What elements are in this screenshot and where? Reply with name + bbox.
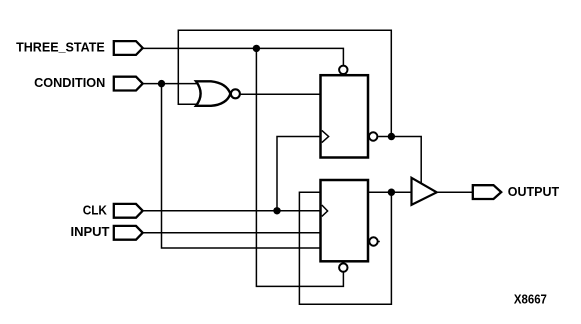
pad CONDITION <box>114 77 143 91</box>
node junction FF1 output <box>388 133 395 140</box>
pad OUTPUT <box>473 185 501 199</box>
wire CLK branch up to FF1 clock <box>277 137 321 211</box>
wire feedback top loop <box>178 30 391 136</box>
wire CONDITION to NOR input <box>142 83 199 85</box>
pad INPUT <box>114 226 143 240</box>
wire NOR output to FF1 D <box>241 93 321 95</box>
svg-text:CONDITION: CONDITION <box>34 75 105 90</box>
svg-text:CLK: CLK <box>83 202 108 217</box>
svg-text:THREE_STATE: THREE_STATE <box>16 39 105 54</box>
svg-text:INPUT: INPUT <box>71 224 110 239</box>
buffer tristate U2 <box>412 178 437 205</box>
flip-flop FF1 preset bubble (top) <box>339 66 347 74</box>
gate NOR U1 output bubble <box>231 89 240 98</box>
wire net TS vertical from junction down <box>256 48 343 286</box>
flip-flop FF2 unused inverted output bubble <box>369 237 377 245</box>
flip-flop FF2 clock wedge <box>322 205 328 216</box>
node junction FF2 output <box>388 189 395 196</box>
flip-flop FF2 body <box>321 180 369 261</box>
node junction CONDITION <box>158 80 165 87</box>
flip-flop FF1 inverted output bubble <box>369 132 377 140</box>
svg-text:X8667: X8667 <box>514 291 547 306</box>
wire FF1 output to buffer enable <box>378 137 421 184</box>
wire FF2 output to buffer <box>368 191 412 193</box>
wire stub at FF2 unused bubble <box>379 241 380 243</box>
wire buffer output <box>437 191 473 193</box>
wire INPUT <box>142 232 320 234</box>
pad THREE_STATE <box>114 41 143 55</box>
node junction THREE_STATE <box>253 45 260 52</box>
wire THREE_STATE horizontal <box>142 48 343 65</box>
svg-text:OUTPUT: OUTPUT <box>508 184 559 199</box>
node junction CLK <box>273 207 280 214</box>
flip-flop FF1 body <box>321 75 369 157</box>
pad CLK <box>114 204 143 218</box>
flip-flop FF2 preset bubble (bottom) <box>339 263 347 271</box>
wire CONDITION vertical to FF2 <box>162 84 321 248</box>
flip-flop FF1 clock wedge <box>322 130 329 142</box>
wire CLK <box>142 210 320 212</box>
wire FF2 output feedback loop <box>299 192 391 304</box>
gate NOR U1 body <box>196 81 230 106</box>
